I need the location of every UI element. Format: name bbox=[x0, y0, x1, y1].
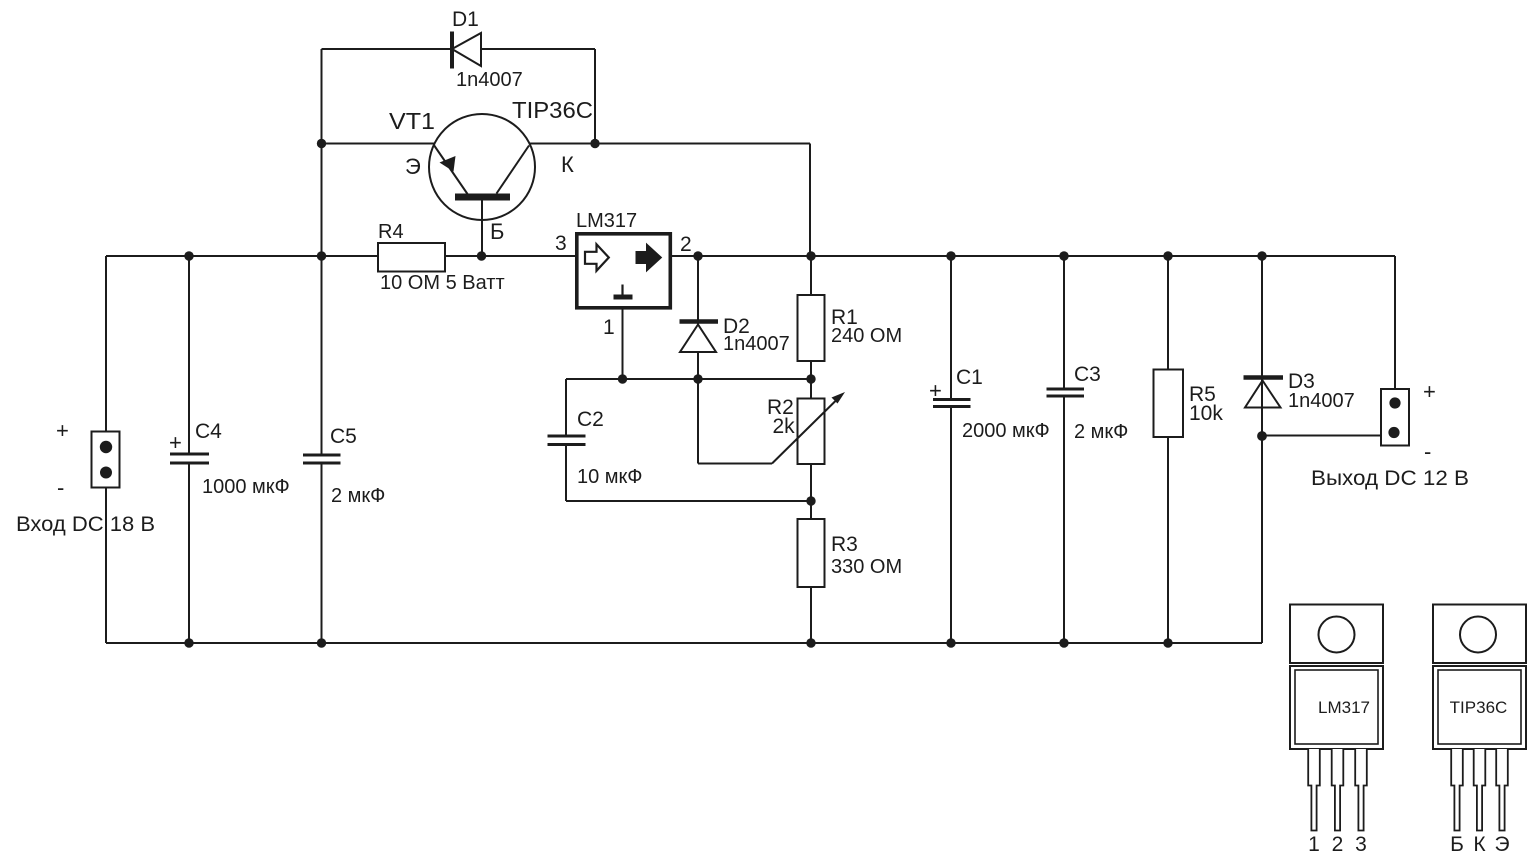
svg-text:R4: R4 bbox=[378, 221, 404, 243]
resistor R4 bbox=[378, 243, 445, 272]
svg-text:C2: C2 bbox=[577, 408, 604, 431]
svg-text:-: - bbox=[1424, 439, 1431, 464]
label pin 3 bbox=[555, 232, 567, 255]
junction: R1-R2 node bbox=[806, 374, 815, 383]
svg-text:2 мкФ: 2 мкФ bbox=[331, 485, 385, 507]
junction: collector loop node bbox=[590, 139, 599, 148]
svg-text:3: 3 bbox=[555, 232, 567, 255]
wire: C2 bottom horizontal to R2-R3 node bbox=[566, 500, 811, 502]
package U1 LM317 TO-220 bbox=[1290, 605, 1383, 750]
wire: R2 wiper diagonal arrow bbox=[772, 392, 845, 464]
junction: C3 top bbox=[1059, 251, 1068, 260]
svg-text:VT1: VT1 bbox=[389, 108, 435, 134]
svg-text:2k: 2k bbox=[773, 415, 796, 438]
label input plus bbox=[56, 418, 69, 443]
wire: collector drop to output rail bbox=[809, 144, 811, 257]
svg-text:R3: R3 bbox=[831, 533, 858, 556]
pin Э of TIP36C package bbox=[1496, 749, 1508, 831]
label Вход DC 18 В bbox=[16, 513, 155, 536]
label D3 value 1n4007 bbox=[1288, 390, 1355, 412]
capacitor C4 bbox=[170, 454, 209, 463]
resistor R3 bbox=[798, 501, 825, 643]
wire: C4 branch bottom bbox=[188, 463, 190, 643]
svg-text:+: + bbox=[169, 430, 182, 455]
wire: collector rail from transistor to right bend bbox=[530, 143, 810, 145]
label LM317 bbox=[576, 210, 637, 232]
wire: C2 bottom lead bbox=[565, 445, 567, 502]
wire: C4 branch top bbox=[188, 256, 190, 454]
label C1 bbox=[956, 366, 983, 389]
wire: D3 branch vertical bbox=[1261, 256, 1263, 643]
label D1 value 1n4007 bbox=[456, 69, 523, 91]
label C3 bbox=[1074, 363, 1101, 386]
label emitter pin Э bbox=[405, 154, 421, 179]
wire: D1 left vertical drop bbox=[321, 49, 323, 144]
svg-text:-: - bbox=[57, 475, 64, 500]
svg-text:1: 1 bbox=[603, 316, 615, 339]
label R4 bbox=[378, 221, 404, 243]
label TIP36C bbox=[512, 97, 593, 123]
svg-text:Э: Э bbox=[405, 154, 421, 179]
svg-text:+: + bbox=[56, 418, 69, 443]
junction: C3 bottom bbox=[1059, 638, 1068, 647]
label C5 value 2 мкФ bbox=[331, 485, 385, 507]
junction: base node on rail bbox=[477, 251, 486, 260]
package VT1 TIP36C TO-220 bbox=[1433, 605, 1526, 750]
svg-text:C4: C4 bbox=[195, 420, 222, 443]
svg-text:Б: Б bbox=[490, 219, 504, 244]
label R2 value 2k bbox=[773, 415, 796, 438]
wire: D2 branch vertical bbox=[697, 256, 699, 379]
label C5 bbox=[330, 425, 357, 448]
label pin letters Б К Э bbox=[1450, 833, 1509, 856]
svg-text:TIP36C: TIP36C bbox=[1450, 698, 1508, 717]
wire: R5 branch bottom bbox=[1167, 437, 1169, 643]
connector J2 output bbox=[1381, 389, 1409, 446]
wire: C2 top lead bbox=[565, 379, 567, 436]
svg-text:+: + bbox=[929, 378, 942, 403]
junction: R1 top on rail bbox=[806, 251, 815, 260]
junction: R2-R3 node bbox=[806, 496, 815, 505]
capacitor C3 bbox=[1047, 389, 1085, 396]
wire: C5 branch lower bbox=[321, 463, 323, 643]
pin 1 of LM317 package bbox=[1308, 749, 1320, 831]
wire: C3 branch top bbox=[1063, 256, 1065, 389]
svg-text:10k: 10k bbox=[1189, 402, 1223, 425]
label R5 bbox=[1189, 383, 1216, 406]
label base pin Б bbox=[490, 219, 504, 244]
junction: R5 bottom bbox=[1163, 638, 1172, 647]
label R3 bbox=[831, 533, 858, 556]
diode D3 bbox=[1244, 378, 1284, 408]
junction: emitter loop node bbox=[317, 139, 326, 148]
junction: D3 top bbox=[1257, 251, 1266, 260]
svg-text:10 мкФ: 10 мкФ bbox=[577, 466, 643, 488]
resistor R2 potentiometer bbox=[798, 379, 825, 501]
resistor R5 bbox=[1154, 370, 1184, 438]
label R5 value 10k bbox=[1189, 402, 1223, 425]
pin К of TIP36C package bbox=[1474, 749, 1486, 831]
junction: C5 bottom bbox=[317, 638, 326, 647]
junction: C1 top bbox=[946, 251, 955, 260]
wire: D1 loop horizontal right segment bbox=[481, 48, 595, 50]
label output minus bbox=[1424, 439, 1431, 464]
label R2 bbox=[767, 396, 794, 419]
pin Б of TIP36C package bbox=[1451, 749, 1463, 831]
transistor VT1 TIP36C bbox=[429, 114, 535, 220]
pin 2 of LM317 package bbox=[1332, 749, 1344, 831]
label VT1 bbox=[389, 108, 435, 134]
label C4 plus bbox=[169, 430, 182, 455]
wire: C3 branch bottom bbox=[1063, 396, 1065, 643]
label output plus bbox=[1423, 379, 1436, 404]
resistor R1 bbox=[798, 295, 825, 361]
capacitor C2 bbox=[548, 436, 586, 445]
junction: C4 top bbox=[184, 251, 193, 260]
wire: output minus horizontal bbox=[1262, 435, 1390, 437]
junction: D3 output node bbox=[1257, 431, 1267, 441]
wire: left input vertical bbox=[105, 256, 107, 643]
wire: emitter rail from left vertical to transistor bbox=[322, 143, 435, 145]
junction: R3 bottom on rail bbox=[806, 638, 815, 647]
svg-text:Выход DC 12 В: Выход DC 12 В bbox=[1311, 467, 1469, 490]
label pin numbers 1 2 3 bbox=[1308, 833, 1367, 856]
wire: bottom rail bbox=[106, 642, 1262, 644]
svg-text:240 ОМ: 240 ОМ bbox=[831, 325, 902, 347]
junction: C4 bottom bbox=[184, 638, 193, 647]
label C1 plus bbox=[929, 378, 942, 403]
svg-text:2: 2 bbox=[680, 233, 692, 256]
svg-text:1n4007: 1n4007 bbox=[456, 69, 523, 91]
svg-text:2: 2 bbox=[1332, 833, 1344, 856]
wire: adjust node rail bbox=[566, 378, 811, 380]
svg-text:2 мкФ: 2 мкФ bbox=[1074, 421, 1128, 443]
wire: D1 right vertical drop to collector bbox=[594, 49, 596, 144]
label R1 bbox=[831, 306, 858, 329]
svg-text:1000 мкФ: 1000 мкФ bbox=[202, 476, 290, 498]
junction: C5 top on rail bbox=[317, 251, 326, 260]
svg-text:C1: C1 bbox=[956, 366, 983, 389]
wire: R2 wiper vertical bbox=[697, 379, 699, 464]
label R4 value 10 ОМ 5 Ватт bbox=[380, 272, 505, 294]
label R1 value 240 ОМ bbox=[831, 325, 902, 347]
label input minus bbox=[57, 475, 64, 500]
label D2 value 1n4007 bbox=[723, 333, 790, 355]
label collector pin К bbox=[561, 152, 574, 177]
svg-text:К: К bbox=[561, 152, 574, 177]
label pin 2 bbox=[680, 233, 692, 256]
svg-text:TIP36C: TIP36C bbox=[512, 97, 593, 123]
junction: pin1 on adjust rail bbox=[618, 374, 627, 383]
regulator U1 LM317 bbox=[577, 234, 671, 308]
junction: R5 top bbox=[1163, 251, 1172, 260]
svg-text:К: К bbox=[1473, 833, 1486, 856]
wire: C5 branch upper bbox=[321, 144, 323, 456]
svg-text:LM317: LM317 bbox=[576, 210, 637, 232]
label C1 value 2000 мкФ bbox=[962, 420, 1050, 442]
svg-text:+: + bbox=[1423, 379, 1436, 404]
svg-text:Вход DC 18 В: Вход DC 18 В bbox=[16, 513, 155, 536]
svg-text:C3: C3 bbox=[1074, 363, 1101, 386]
wire: top rail LM317 to output corner bbox=[672, 255, 1395, 257]
label Выход DC 12 В bbox=[1311, 467, 1469, 490]
connector J1 input bbox=[92, 432, 120, 488]
label D3 bbox=[1288, 370, 1315, 393]
svg-text:1: 1 bbox=[1308, 833, 1320, 856]
wire: output plus vertical bbox=[1394, 256, 1396, 403]
wire: LM317 pin 1 lead bbox=[622, 309, 624, 379]
wire: top rail R4 to LM317 bbox=[445, 255, 575, 257]
label C2 bbox=[577, 408, 604, 431]
svg-text:Б: Б bbox=[1450, 833, 1464, 856]
junction: D2 bottom on adjust rail bbox=[693, 374, 702, 383]
label D1 bbox=[452, 8, 479, 31]
wire: top rail left segment bbox=[106, 255, 378, 257]
label C3 value 2 мкФ bbox=[1074, 421, 1128, 443]
svg-text:1n4007: 1n4007 bbox=[1288, 390, 1355, 412]
pin 3 of LM317 package bbox=[1355, 749, 1367, 831]
wire: D1 loop horizontal left segment bbox=[322, 48, 453, 50]
wire: C1 branch top bbox=[950, 256, 952, 400]
svg-text:3: 3 bbox=[1355, 833, 1367, 856]
label R3 value 330 ОМ bbox=[831, 556, 902, 578]
capacitor C1 bbox=[933, 400, 971, 407]
svg-text:Э: Э bbox=[1494, 833, 1509, 856]
wire: R1 top lead bbox=[810, 256, 812, 295]
svg-text:1n4007: 1n4007 bbox=[723, 333, 790, 355]
diode D2 bbox=[680, 322, 719, 380]
svg-text:LM317: LM317 bbox=[1318, 698, 1370, 717]
svg-text:2000 мкФ: 2000 мкФ bbox=[962, 420, 1050, 442]
wire: C1 branch bottom bbox=[950, 407, 952, 644]
svg-text:D1: D1 bbox=[452, 8, 479, 31]
label C4 bbox=[195, 420, 222, 443]
capacitor C5 bbox=[303, 455, 341, 463]
svg-text:10 ОМ 5 Ватт: 10 ОМ 5 Ватт bbox=[380, 272, 505, 294]
label D2 bbox=[723, 315, 750, 338]
label pin 1 bbox=[603, 316, 615, 339]
svg-text:C5: C5 bbox=[330, 425, 357, 448]
wire: base lead bbox=[481, 201, 483, 257]
label C4 value 1000 мкФ bbox=[202, 476, 290, 498]
junction: D2 top on rail bbox=[693, 251, 702, 260]
junction: C1 bottom bbox=[946, 638, 955, 647]
wire: R1 bottom lead bbox=[810, 361, 812, 379]
wire: R2 wiper horizontal bbox=[698, 463, 772, 465]
diode D1 bbox=[452, 32, 481, 69]
label C2 value 10 мкФ bbox=[577, 466, 643, 488]
wire: R5 branch top bbox=[1167, 256, 1169, 370]
svg-text:330 ОМ: 330 ОМ bbox=[831, 556, 902, 578]
